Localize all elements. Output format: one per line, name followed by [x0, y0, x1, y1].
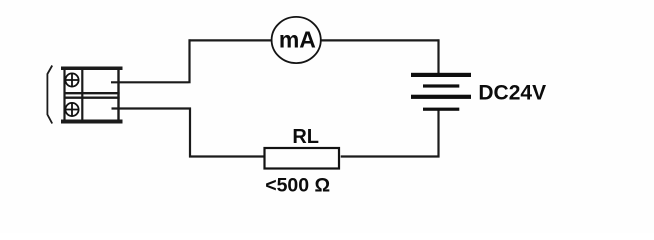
screw terminal 2 — [65, 103, 78, 116]
wire bottom left of resistor — [189, 155, 264, 157]
wire lower elbow vertical — [189, 108, 191, 158]
terminal block middle divider line 2 — [64, 96, 120, 98]
wire upper elbow vertical — [188, 39, 190, 83]
wire top horizontal left of meter — [189, 39, 272, 41]
terminal block top bar — [61, 67, 123, 71]
terminal block left edge — [63, 70, 65, 120]
svg-text:mA: mA — [279, 27, 316, 53]
wire top horizontal right of meter — [321, 39, 440, 41]
terminal block right edge — [117, 70, 119, 120]
milliammeter M1 circle — [272, 17, 321, 63]
wire right vertical to battery top — [437, 39, 439, 74]
terminal block bottom bar — [61, 120, 123, 124]
wire top terminal to upper elbow — [111, 81, 189, 83]
battery BT1 plate 1 long — [411, 73, 471, 77]
screw terminal 1 — [65, 73, 78, 86]
resistor RL body — [265, 148, 340, 169]
terminal block inner partition — [81, 70, 83, 120]
battery BT1 plate 2 short — [423, 84, 459, 87]
svg-text:RL: RL — [292, 126, 319, 148]
wire bottom right of resistor — [341, 155, 440, 157]
svg-text:<500 Ω: <500 Ω — [265, 175, 330, 197]
wire lower elbow to bottom terminal — [112, 107, 192, 109]
terminal block TB1 — [61, 67, 123, 124]
battery BT1 plate 3 long — [411, 95, 471, 99]
left bracket — [47, 66, 52, 124]
svg-text:DC24V: DC24V — [478, 81, 546, 104]
wire right vertical below battery — [437, 110, 439, 158]
terminal block middle divider line 1 — [64, 92, 120, 94]
battery BT1 plate 4 short — [423, 108, 459, 111]
